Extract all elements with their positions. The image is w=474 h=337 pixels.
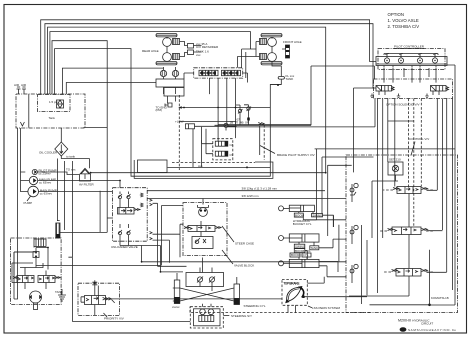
wire pilot-4 — [50, 32, 251, 94]
wire tank return right — [84, 127, 108, 129]
junction dot — [428, 304, 431, 307]
svg-text:BUCKET CYL: BUCKET CYL — [293, 222, 312, 226]
brake unit top — [260, 39, 267, 45]
wire right bus — [430, 95, 456, 305]
priority valve — [68, 257, 282, 321]
orbitrol — [190, 307, 252, 328]
wire filter out — [91, 172, 326, 174]
crossbar — [384, 54, 438, 56]
wire unloader bus right — [147, 190, 325, 192]
lss — [282, 277, 367, 313]
tank partition — [28, 94, 30, 128]
svg-text:3/8 12W mm: 3/8 12W mm — [242, 194, 260, 198]
air breather B2 — [21, 83, 27, 94]
wire manifold to front axle — [237, 49, 256, 78]
brake block — [11, 238, 66, 310]
middle detail group — [156, 84, 376, 170]
junction dot mid — [183, 107, 185, 109]
wire main return bus — [14, 252, 35, 299]
check valve block — [186, 268, 224, 287]
svg-text:OIL COOLER: OIL COOLER — [39, 151, 58, 155]
wire steering links — [203, 258, 213, 307]
accumulator A2 — [172, 67, 178, 77]
svg-text:SWING: SWING — [295, 244, 306, 248]
tire top — [261, 34, 282, 37]
tank symbol T2 — [278, 71, 295, 81]
spool valve SP2 — [379, 227, 434, 235]
section dash mid — [263, 125, 265, 160]
pilot pump P3 — [32, 169, 37, 174]
wire lss links — [305, 277, 367, 297]
wire priority out right — [106, 298, 283, 300]
wire riser e — [360, 225, 362, 304]
brake unit top — [173, 39, 180, 45]
cam plate — [285, 286, 305, 303]
load check LC2 — [350, 225, 358, 244]
tire bottom — [156, 62, 177, 65]
wire pilot-1 — [41, 20, 376, 94]
wire brake supply box — [315, 148, 455, 150]
svg-text:OPTION SOLENOID V/V: OPTION SOLENOID V/V — [386, 103, 420, 107]
section line x179 — [178, 95, 180, 170]
svg-text:Tank: Tank — [49, 116, 56, 120]
svg-text:2. TOSHIBA C/V: 2. TOSHIBA C/V — [388, 24, 420, 29]
air breather B1 — [14, 83, 21, 94]
solenoid valve SV1 — [376, 86, 394, 96]
wheel hub top — [163, 38, 172, 47]
wire bottom dashed — [190, 307, 370, 313]
svg-text:BOOM: BOOM — [291, 253, 301, 257]
svg-text:LSS PERN SYSTEM: LSS PERN SYSTEM — [312, 306, 341, 310]
wire manifold feeds — [184, 73, 194, 79]
svg-text:KOMATSU-B: KOMATSU-B — [431, 296, 449, 300]
pilot controller — [376, 45, 455, 96]
steering cylinder right — [234, 277, 266, 308]
wire priority top ports — [92, 280, 98, 295]
svg-text:BRAKE PILOT SUPPLY V/V: BRAKE PILOT SUPPLY V/V — [277, 153, 315, 157]
slack adjuster blocks — [180, 42, 194, 57]
wire manifold drops — [209, 78, 235, 138]
wire solenoid drops — [378, 99, 395, 294]
wire pilot-8 — [66, 83, 156, 95]
control valve — [346, 95, 458, 313]
brake valve spool left — [13, 276, 34, 283]
wire spool stubs — [427, 190, 447, 272]
svg-text:PUMP: PUMP — [24, 201, 33, 205]
wire bus y265 — [36, 264, 161, 266]
axle shaft — [166, 37, 168, 62]
svg-text:S A M S U N G H E A V Y I: S A M S U N G H E A V Y I N D . Co — [408, 328, 456, 332]
accumulator box — [213, 139, 233, 160]
wire crossing horizontals — [354, 88, 374, 172]
svg-text:TANK: TANK — [55, 290, 63, 294]
main relief valve — [388, 158, 403, 182]
pressure switch — [175, 120, 195, 129]
unloader valve — [107, 188, 346, 272]
svg-text:AIR: AIR — [14, 83, 20, 87]
engine marker — [156, 103, 173, 112]
relief valve in block — [33, 248, 39, 262]
wire box horizontals — [322, 157, 374, 165]
solenoid valve SV2 — [431, 86, 449, 96]
wire bus y167 — [168, 166, 271, 168]
wire pilot-5 — [52, 41, 107, 218]
AV filter F1 — [56, 159, 326, 258]
svg-text:CIRCUIT: CIRCUIT — [421, 321, 433, 325]
svg-text:1. VOLVO AXLE: 1. VOLVO AXLE — [388, 18, 419, 23]
tank symbol t3 — [425, 94, 428, 98]
svg-text:TO xxx: TO xxx — [66, 168, 76, 172]
accumulator left — [56, 223, 60, 238]
steering spool — [184, 221, 221, 237]
wire pilot drops — [384, 68, 436, 83]
wire riser f — [366, 240, 368, 295]
brake unit bottom — [173, 54, 180, 60]
long bus wires bottom — [14, 172, 370, 313]
junction block — [138, 160, 168, 173]
relief spring mid — [258, 122, 264, 155]
wire option feeds — [215, 66, 375, 125]
accumulator A1 — [160, 67, 166, 77]
svg-text:TOP BRAKE: TOP BRAKE — [283, 282, 299, 286]
wire priority bottom — [94, 305, 96, 316]
wire pilot-6 — [55, 49, 282, 177]
title — [398, 319, 456, 333]
arm cylinder CYL3 — [279, 253, 347, 277]
svg-text:1.5 psi: 1.5 psi — [49, 100, 58, 104]
svg-text:xxxxx: xxxxx — [172, 305, 180, 309]
wire pilot bottom links — [447, 65, 455, 95]
port ticks — [384, 66, 436, 68]
main pump P1 — [28, 186, 39, 197]
svg-text:(PM): (PM) — [156, 108, 163, 112]
wire mid h124 — [218, 99, 375, 127]
wire tank suction 2 — [21, 128, 28, 192]
wire lss drops — [288, 305, 296, 312]
leader — [27, 196, 31, 202]
wire option link h121 — [388, 120, 414, 122]
pumps — [21, 168, 121, 206]
junction dots — [90, 172, 92, 174]
wire cooler drop lines — [57, 159, 59, 221]
tire bottom — [261, 62, 282, 65]
accumulator C8 — [215, 141, 233, 147]
bucket cylinder CYL1 — [279, 205, 347, 227]
wire cv verticals — [349, 181, 409, 296]
wire bundle top-left corner (7 nested routing wires) — [41, 20, 376, 218]
joystick RV2 — [398, 58, 403, 63]
svg-text:BOOM CYL: BOOM CYL — [295, 249, 311, 253]
svg-text:STEERING CYL: STEERING CYL — [244, 304, 266, 308]
check valve CV-c — [118, 230, 122, 235]
wire tank suction left — [14, 128, 18, 299]
svg-text:cc 63/rev: cc 63/rev — [39, 181, 52, 185]
wheel hub top — [268, 38, 277, 47]
svg-text:xxx: xxx — [196, 53, 201, 57]
wire unloader left ports — [107, 217, 112, 219]
option text — [388, 12, 420, 29]
joystick RV3 — [417, 58, 422, 63]
wire acc feeds — [202, 108, 219, 154]
junction dot bus — [246, 166, 248, 168]
priority spool — [81, 296, 115, 305]
wire mesh right of cylinders — [303, 149, 455, 304]
svg-text:SWING: SWING — [312, 213, 323, 217]
load check LC1 — [350, 183, 358, 202]
wire cooler out — [61, 156, 89, 159]
internal wires — [120, 192, 129, 242]
svg-text:AIR: AIR — [21, 83, 27, 87]
tank T1 — [14, 83, 107, 299]
wire main pump1 out — [39, 191, 113, 193]
brake valve spool right — [38, 276, 60, 283]
breather valve on tank — [49, 100, 64, 108]
manifold spools group2 — [222, 70, 241, 75]
svg-text:CONTROL V/V: CONTROL V/V — [409, 137, 429, 141]
wire unloader out bottom — [120, 241, 346, 272]
crossing wires — [173, 288, 234, 301]
wire riser b — [321, 157, 323, 214]
load check LC3 — [350, 264, 358, 283]
gerotor pump — [198, 199, 209, 217]
suction strainer — [20, 122, 24, 126]
section line h — [172, 162, 255, 164]
wire manifold right loop — [243, 73, 248, 83]
small check valves mid right — [236, 105, 251, 125]
wires in block — [12, 247, 48, 290]
manifold spools group1 — [199, 70, 218, 75]
wire riser a — [303, 149, 316, 220]
svg-text:VALVE BLOCK: VALVE BLOCK — [234, 264, 254, 268]
joystick RV1 — [384, 58, 389, 63]
svg-text:PRIORITY V/V: PRIORITY V/V — [104, 317, 124, 321]
wire steering feed — [162, 206, 184, 266]
spool valve SP3 — [383, 269, 434, 277]
svg-text:TANK: TANK — [310, 246, 318, 250]
wire return loop — [134, 160, 273, 178]
rear axle — [142, 34, 219, 104]
wire riser d — [333, 215, 339, 261]
tank symbol t2 — [397, 94, 400, 98]
unloader spool — [118, 208, 141, 215]
svg-text:CYL: CYL — [303, 253, 309, 257]
wire main pump2 out — [38, 181, 120, 188]
wire axle to tank symbol — [272, 61, 281, 71]
front axle — [251, 34, 302, 85]
wire pump suction manifold — [21, 172, 30, 181]
steering relief box — [192, 237, 213, 249]
charge valve — [224, 123, 228, 130]
svg-text:STEER CASE: STEER CASE — [235, 242, 254, 246]
wire switch drops — [193, 129, 202, 168]
tank symbol t1 — [370, 94, 373, 98]
tank return symbol — [55, 289, 66, 301]
wheel hub bottom — [268, 53, 277, 62]
axle shaft — [271, 37, 273, 53]
wheel hub bottom — [163, 53, 172, 62]
svg-text:cc 63/rev: cc 63/rev — [40, 192, 53, 196]
check valve CV-a — [118, 194, 122, 199]
wire pilot pump out — [37, 172, 79, 175]
top sub box — [34, 239, 46, 247]
accumulator C9 — [215, 151, 233, 157]
wire priority left loop — [68, 257, 190, 321]
manifold — [184, 49, 256, 138]
svg-text:AV FILTER: AV FILTER — [79, 183, 95, 187]
boom cylinder CYL2 — [279, 234, 347, 260]
springs right — [141, 193, 144, 207]
arrow on bus — [178, 106, 182, 108]
sub block below junction — [164, 88, 184, 97]
wire tank return down — [60, 128, 62, 142]
svg-text:PILOT CONTROLLER: PILOT CONTROLLER — [394, 45, 425, 49]
manifold cell marks — [201, 71, 239, 74]
svg-text:STEERING S/Y: STEERING S/Y — [231, 314, 252, 318]
svg-text:OPTION: OPTION — [388, 12, 404, 17]
spool valve SP1 — [383, 187, 434, 194]
accumulator vertical — [286, 45, 290, 58]
wire return mid bus — [60, 191, 107, 233]
tire top — [156, 34, 177, 37]
svg-text:SET 210: SET 210 — [389, 158, 401, 162]
wire front axle links — [251, 42, 286, 57]
wire steering left ports — [150, 199, 187, 266]
main pump P2 — [29, 176, 37, 184]
wire unloader bus right 2 — [147, 198, 346, 200]
steering — [150, 199, 266, 329]
wire pilot-7 — [62, 68, 163, 94]
svg-text:REAR AXLE: REAR AXLE — [142, 49, 159, 53]
cylinders — [242, 149, 456, 304]
wire pilot-2 — [45, 24, 376, 94]
check valve CV-b — [127, 194, 131, 199]
svg-text:FRONT AXLE: FRONT AXLE — [283, 40, 302, 44]
joystick RV4 — [432, 58, 437, 63]
option solenoid — [215, 66, 453, 293]
wire pilot-3 — [48, 27, 326, 173]
svg-text:07: 07 — [237, 118, 241, 122]
svg-text:BOOM: BOOM — [295, 213, 305, 217]
wire mid horizontals — [179, 108, 270, 127]
steering cylinder left — [172, 273, 180, 309]
svg-text:TANK: TANK — [286, 77, 294, 81]
svg-text:3/8 12kg d 11 3 d 1.28 mm: 3/8 12kg d 11 3 d 1.28 mm — [242, 187, 278, 191]
svg-text:to tank: to tank — [66, 155, 76, 159]
hydraulic motor M1 — [29, 291, 42, 310]
junction box below accumulators — [156, 79, 184, 87]
oil cooler — [39, 142, 90, 159]
check valve CV-d — [127, 230, 131, 235]
brake unit bottom — [260, 54, 267, 60]
wire riser c — [327, 165, 329, 236]
